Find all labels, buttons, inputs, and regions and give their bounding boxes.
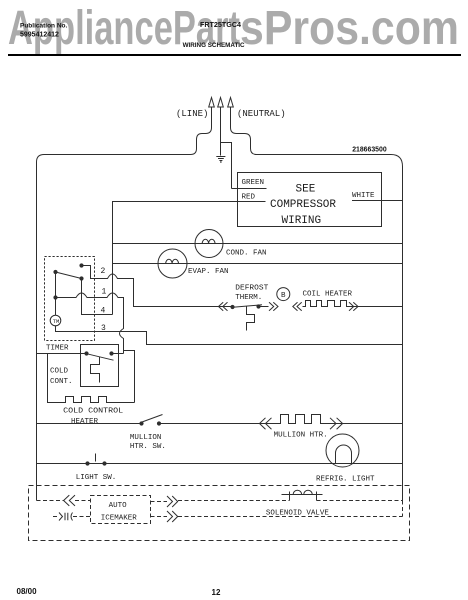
svg-text:SOLENOID VALVE: SOLENOID VALVE [266,510,330,518]
label COLD CONT. [50,368,73,386]
svg-text:SEE: SEE [296,184,316,196]
lamp refrig light [326,434,359,467]
svg-text:DEFROST: DEFROST [235,285,269,293]
light switch plunger [95,454,97,462]
wire row1 to solenoid dashed [178,500,290,502]
wire condenser fan row [113,243,403,245]
wire green ground to compressor [221,143,232,189]
svg-text:MULLION: MULLION [130,434,162,442]
watermark AppliancePartsPros.com [8,2,459,55]
compressor box [238,173,382,227]
label COLD CONTROL HEATER [63,408,124,426]
timer box [45,257,95,341]
wire white compressor to right rail [352,200,403,202]
mullion heater element [272,415,329,424]
timer motor TM [50,315,61,326]
connector chevrons left of mullion heater [260,418,272,429]
wire green terminal underline [232,188,267,190]
svg-text:FRT25TGC4: FRT25TGC4 [200,22,241,29]
wire right junction vertical dashed [402,501,404,517]
defrost thermostat arm [233,305,262,308]
svg-text:LIGHT SW.: LIGHT SW. [76,474,117,482]
svg-text:B: B [281,292,286,300]
svg-text:HEATER: HEATER [71,418,99,426]
svg-text:08/00: 08/00 [17,587,38,596]
label DEFROST THERM. [235,285,269,303]
svg-text:1: 1 [102,288,107,297]
svg-text:TM: TM [53,318,60,325]
wire row2 to right junction dashed [178,516,403,518]
wire LINE prong to left rail [37,107,212,501]
svg-text:4: 4 [101,307,106,316]
label MULLION HTR. SW. [130,434,166,451]
light switch dots [85,461,106,465]
connector B male chevrons [269,302,278,310]
connector B female chevrons [293,302,302,310]
wire cold control branch to heater [124,351,135,403]
cold control box [81,345,119,387]
wire timer arm tip to terminal 4 [82,279,113,315]
wire red compressor feed and rail R1 [113,202,266,315]
svg-text:COIL HEATER: COIL HEATER [303,290,353,298]
wire ground prong [220,107,222,156]
svg-text:3: 3 [101,324,106,333]
svg-text:COMPRESSOR: COMPRESSOR [270,199,336,211]
cold control contact dots [84,351,113,355]
wire NEUTRAL prong to right rail [231,107,403,501]
connector B circle label [277,288,290,301]
wire solenoid to right junction dashed [317,500,403,502]
svg-text:sPros.com: sPros.com [240,2,459,55]
connector chevrons row1 [167,496,178,507]
svg-text:GREEN: GREEN [242,179,265,187]
wire mullion heater to right rail [329,423,403,425]
connector chevrons row2 [167,511,178,522]
wire mullion switch to heater [159,423,272,425]
cold control switch arm [87,354,114,361]
svg-text:TIMER: TIMER [46,345,69,353]
svg-text:COLD: COLD [50,368,69,376]
wire mullion heater row left [37,423,142,425]
icemaker harness dashed boundary box [29,486,410,541]
timer contact dots [53,263,83,299]
motor cond fan [195,230,223,258]
plug prong arrowheads [209,98,234,108]
svg-text:(LINE): (LINE) [176,109,208,119]
defrost thermostat contact dots [230,304,260,309]
motor evap fan [158,249,187,278]
svg-text:(NEUTRAL): (NEUTRAL) [237,109,286,119]
svg-text:WHITE: WHITE [352,192,375,200]
defrost thermostat sensing element [247,306,255,331]
svg-text:CONT.: CONT. [50,378,73,386]
wire connector to icemaker box row2 dashed [73,516,91,518]
title rule [8,54,461,56]
svg-text:WIRING SCHEMATIC: WIRING SCHEMATIC [183,42,245,49]
mullion heater switch arm [142,415,163,423]
svg-text:COND. FAN: COND. FAN [226,249,267,257]
cold control heater element [48,354,135,403]
timer switch arm [56,272,82,279]
mullion heater switch dots [139,421,161,425]
svg-text:2: 2 [101,267,106,276]
svg-text:12: 12 [212,588,221,597]
wire icemaker out row2 dashed [151,516,168,518]
svg-text:REFRIG. LIGHT: REFRIG. LIGHT [316,476,375,484]
water valve connector symbol [59,513,73,521]
wire timer terminal 1 to cold control [56,293,124,354]
wire timer pivot to TM [55,272,57,315]
svg-text:ICEMAKER: ICEMAKER [101,514,138,522]
svg-text:HTR. SW.: HTR. SW. [130,443,166,451]
coil heater element [303,301,349,307]
svg-text:WIRING: WIRING [282,215,322,227]
wire coil heater to right rail [349,306,403,308]
svg-text:AUTO: AUTO [109,502,128,510]
wire icemaker out row1 dashed [151,501,168,503]
wire timer motor to neutral row [56,326,403,345]
wire evaporator fan row [113,263,403,265]
svg-text:218663500: 218663500 [352,147,387,154]
connector chevrons icemaker feed [64,495,75,506]
cold control sensing element [91,357,100,383]
solenoid valve coil [282,490,323,500]
svg-text:MULLION HTR.: MULLION HTR. [274,431,328,439]
label AUTO ICEMAKER [101,502,138,522]
svg-text:5995412412: 5995412412 [20,32,59,39]
auto icemaker box [91,496,151,524]
connector chevrons left of defrost thermostat [219,302,228,310]
svg-text:RED: RED [242,194,256,202]
connector chevrons right of mullion heater [330,418,343,429]
svg-text:EVAP. FAN: EVAP. FAN [188,268,229,276]
svg-text:THERM.: THERM. [235,294,262,302]
ground symbol [216,157,225,164]
wire connector to icemaker box dashed [75,500,91,502]
svg-text:COLD CONTROL: COLD CONTROL [63,408,124,416]
wire timer terminal 2 to defrost row [82,266,233,307]
wire cold control right contact [112,353,124,355]
svg-text:Publication No.: Publication No. [20,23,68,30]
wire icemaker feed dashed from left rail [37,500,64,502]
wire cold control feed from left rail [37,353,87,355]
wire refrigerator light row [37,463,403,465]
wire icemaker water valve connector [53,516,57,518]
label SEE COMPRESSOR WIRING [270,184,336,227]
connector chevrons right of coil heater [349,302,358,310]
wire defrost therm to connector B [259,306,269,308]
